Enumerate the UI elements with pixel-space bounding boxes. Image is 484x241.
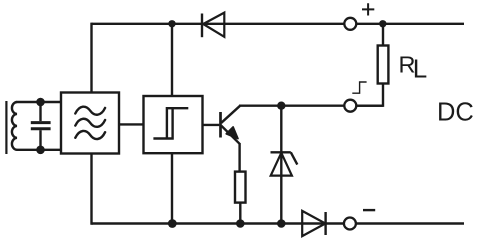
- terminal output: [344, 100, 356, 112]
- label switching output step symbol: [352, 82, 366, 93]
- wire top supply rail: [92, 23, 465, 25]
- capacitor C1 bottom lead: [39, 130, 41, 150]
- oscillator block U1 box: [61, 93, 119, 154]
- capacitor C1 top lead: [39, 102, 41, 121]
- resistor R1: [235, 172, 246, 203]
- capacitor C1 plates: [31, 123, 51, 129]
- Schmitt trigger block U2 box: [144, 96, 203, 153]
- inductor L1 sensor coil: [12, 102, 17, 150]
- zener diode D2 cathode bar: [271, 151, 291, 153]
- core bar of sensor coil: [5, 101, 7, 154]
- wire bottom supply rail: [92, 222, 465, 224]
- transistor Q1 base bar: [219, 112, 222, 138]
- wire Schmitt output to transistor base: [203, 124, 220, 126]
- diode D3 output protection triangle: [302, 211, 325, 236]
- junction node bottom rail to Schmitt: [168, 219, 177, 228]
- transistor Q1 emitter lead: [221, 126, 239, 144]
- wire left vertical from top rail to bottom rail: [90, 23, 92, 225]
- wire vertical from top rail to Schmitt box and box to bottom rail: [171, 24, 173, 224]
- zener diode D2 triangle: [271, 153, 292, 176]
- junction node collector-zener: [277, 102, 285, 110]
- junction node top rail to Schmitt supply: [168, 20, 175, 27]
- label plus sign: [362, 3, 374, 15]
- oscillator U1 wave symbol: [75, 107, 105, 139]
- wire tank circuit bottom: [17, 149, 63, 151]
- zener diode D2 cathode wing: [291, 152, 298, 164]
- wire collector to output terminal: [239, 104, 383, 106]
- label minus sign: [363, 209, 375, 211]
- svg-text:DC: DC: [437, 99, 474, 127]
- wire oscillator output to Schmitt trigger input: [119, 123, 144, 125]
- wire emitter to resistor R1: [238, 143, 240, 172]
- wire load RL bottom lead to output: [357, 84, 383, 106]
- wire zener branch vertical: [280, 106, 282, 224]
- junction node top rail to load: [379, 20, 386, 27]
- transistor Q1 collector lead: [221, 106, 240, 123]
- terminal minus: [344, 218, 356, 230]
- junction node tank bottom: [36, 146, 45, 155]
- terminal plus: [344, 18, 356, 30]
- junction node tank top: [36, 98, 45, 107]
- wire load RL top lead: [382, 24, 384, 46]
- transistor Q1 emitter arrow: [226, 127, 238, 139]
- diode D1 reverse polarity protection cathode bar: [201, 14, 203, 38]
- wire tank circuit top: [17, 101, 63, 103]
- junction node resistor bottom: [236, 219, 245, 228]
- junction node zener-bottom-rail: [277, 219, 286, 228]
- wire resistor R1 to bottom rail: [239, 203, 241, 224]
- resistor RL load: [378, 46, 389, 84]
- Schmitt trigger U2 hysteresis symbol: [153, 107, 188, 140]
- diode D3 cathode bar: [324, 212, 326, 235]
- svg-text:L: L: [413, 54, 427, 84]
- diode D1 triangle: [203, 13, 224, 37]
